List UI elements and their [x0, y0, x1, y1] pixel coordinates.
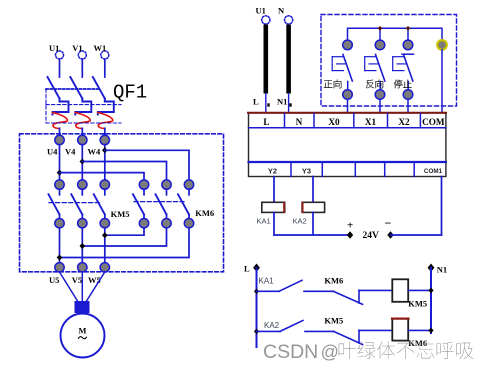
coil KM6 — [392, 319, 409, 341]
svg-text:W4: W4 — [88, 146, 102, 156]
wire W4 down to KM5 contact 3 — [104, 145, 106, 180]
terminal U4 — [47, 135, 64, 156]
KA2 NO contact blade — [280, 320, 303, 331]
svg-text:M: M — [79, 326, 87, 335]
wire QF1 pole 2 to V4 — [81, 128, 83, 135]
svg-text:N1: N1 — [437, 264, 447, 274]
terminal W5 — [88, 263, 110, 285]
wire Y3 to relay KA2 — [312, 177, 314, 203]
rung 2: node on L rail — [254, 329, 259, 335]
terminal V1 (supply phase) — [72, 43, 86, 59]
PLC output terminal labels — [268, 167, 443, 176]
rung 1 wire to coil KM5 — [359, 289, 392, 291]
QF1 trip linkage (dotted) — [46, 88, 100, 90]
thick conductor N to N1 — [286, 25, 291, 94]
PLC output row separators — [291, 162, 414, 177]
node on W5 wire — [102, 232, 108, 238]
wire KM6 contact 1 to W5 wire — [105, 228, 144, 235]
svg-text:QF1: QF1 — [113, 82, 147, 104]
svg-text:X1: X1 — [365, 117, 377, 127]
wire V4 down to KM5 contact 2 — [81, 145, 83, 180]
node on V5 wire — [80, 243, 86, 249]
wire COM terminal to PLC COM — [441, 50, 443, 113]
svg-text:W5: W5 — [88, 275, 101, 285]
QF1 enclosure (dashed) — [46, 89, 121, 123]
push button box (dashed) — [321, 15, 457, 107]
terminal V5 — [72, 263, 87, 285]
contactor KM6 contact 3 — [178, 180, 194, 228]
svg-text:KA1: KA1 — [259, 277, 275, 286]
contactor KM5 contact 1 — [49, 180, 65, 228]
common bus wire of buttons — [348, 28, 443, 40]
thick conductor U1 to L — [264, 25, 269, 94]
contactor KM5 contact 2 — [71, 180, 87, 228]
svg-text:L: L — [244, 264, 250, 274]
rung 2 wire to N1 — [408, 329, 431, 331]
terminal U5 — [49, 263, 64, 285]
bus stub to SB2 — [379, 28, 381, 40]
wire SB1 to X0 — [347, 99, 349, 113]
wire KM5 contact 2 to V5 — [81, 228, 83, 263]
wire SB2 to X1 — [379, 99, 381, 113]
svg-text:KA1: KA1 — [257, 217, 271, 226]
QF1 pole 1 thermal element (red) — [53, 113, 68, 129]
PLC top edge (dark red) — [248, 112, 446, 114]
svg-text:U4: U4 — [47, 146, 58, 156]
terminal W1 (supply phase) — [94, 43, 109, 59]
svg-text:CSDN: CSDN — [263, 341, 318, 363]
svg-text:V1: V1 — [72, 43, 82, 53]
node on bus at SB3 — [406, 26, 411, 31]
svg-text:KA2: KA2 — [293, 217, 307, 226]
motor terminal box (filled square) — [75, 301, 90, 313]
wire U5 to motor — [60, 272, 78, 301]
wire to PLC terminal N — [288, 94, 290, 114]
push button SB1 (forward) — [332, 40, 352, 99]
contactor network enclosure (dashed box) — [20, 134, 224, 272]
QF1 pole 3 release element — [98, 99, 114, 115]
wire KM5 contact 1 to U5 — [59, 228, 61, 263]
svg-text:−: − — [385, 216, 392, 230]
svg-text:W1: W1 — [94, 43, 107, 53]
svg-text:L: L — [253, 96, 259, 106]
branch wire U4 to KM6 contact 1 — [60, 173, 145, 180]
svg-text:COM1: COM1 — [424, 168, 443, 175]
rung 2 wire middle — [305, 330, 334, 332]
ladder rail L — [244, 264, 260, 348]
KM6 NC contact blade — [334, 290, 363, 304]
relay coil KA1 — [262, 202, 285, 212]
svg-text:KM5: KM5 — [111, 209, 130, 219]
wire KM6 contact 2 to V5 wire — [82, 228, 166, 246]
svg-text:Y3: Y3 — [302, 167, 311, 176]
contactor KM6 contact 1 — [133, 180, 149, 228]
KM6 mechanical linkage (dashed) — [134, 201, 184, 203]
svg-text:U5: U5 — [49, 275, 59, 285]
24V plus terminal — [347, 220, 353, 239]
label button SB1 (Chinese) — [324, 80, 341, 89]
rung 1 wire to N1 — [408, 289, 431, 291]
wire SB3 to X2 — [407, 99, 409, 113]
wire KA2 to 24V rail — [312, 212, 314, 235]
svg-text:24V: 24V — [363, 231, 380, 241]
wire QF1 pole 1 to U4 — [59, 128, 61, 135]
circuit breaker QF1 pole 2 blade — [70, 77, 82, 99]
QF1 pole 2 thermal element (red) — [75, 113, 90, 129]
svg-text:N1: N1 — [277, 96, 287, 106]
rung 2 wire to coil KM6 — [359, 329, 392, 331]
svg-text:V4: V4 — [65, 146, 76, 156]
label button SB3 (Chinese) — [394, 80, 412, 89]
svg-text:U1: U1 — [49, 43, 59, 53]
circuit breaker QF1 pole 1 blade — [48, 77, 60, 99]
terminal U1 (supply phase) — [49, 43, 64, 59]
rung 2 wire from L — [257, 330, 281, 332]
branch wire V4 to KM6 contact 2 — [82, 162, 166, 181]
svg-text:KM5: KM5 — [408, 299, 427, 309]
bus stub to SB3 — [407, 28, 409, 40]
COM terminal (yellow) — [437, 40, 447, 50]
svg-text:Y2: Y2 — [268, 167, 277, 176]
svg-text:N: N — [278, 5, 285, 15]
node on U5 wire — [57, 255, 63, 261]
wire KM6 contact 3 to U5 wire — [60, 228, 190, 258]
label button SB2 (Chinese) — [366, 80, 383, 89]
wire W5 to motor — [87, 272, 105, 301]
wire U4 down to KM5 contact 1 — [59, 145, 61, 180]
push button SB2 (reverse) — [365, 40, 385, 99]
wire QF1 pole 3 to W4 — [104, 128, 106, 135]
wire V5 to motor — [81, 272, 83, 301]
wire W1 to QF1 — [104, 59, 106, 77]
rung 2: node on N1 rail — [428, 328, 433, 334]
svg-text:COM: COM — [422, 117, 445, 127]
relay coil KA2 — [302, 202, 325, 212]
PLC input row separators — [285, 114, 421, 128]
wire KM5 contact 3 to W5 — [104, 228, 106, 263]
wire to PLC terminal L — [265, 94, 267, 114]
node on bus at SB2 — [378, 26, 383, 31]
terminal V4 — [65, 135, 87, 156]
svg-text:@: @ — [321, 342, 339, 362]
terminal W4 — [88, 135, 110, 156]
coil KM5 — [392, 279, 408, 302]
svg-text:X0: X0 — [328, 117, 340, 127]
wire U1 to QF1 — [59, 59, 61, 77]
QF1 pole 1 release element — [53, 99, 69, 115]
svg-text:U1: U1 — [256, 5, 266, 15]
24V minus terminal — [385, 216, 394, 239]
terminal U1 (control supply) — [256, 5, 270, 24]
24V rail right segment — [391, 234, 442, 236]
rung 1: node on N1 rail — [428, 288, 433, 294]
svg-text:KM5: KM5 — [324, 316, 343, 326]
motor M circle — [61, 314, 105, 358]
QF1 pole 2 release element — [75, 99, 91, 115]
tick on N1 wire — [289, 103, 291, 106]
svg-text:L: L — [263, 117, 269, 127]
svg-text:KM6: KM6 — [324, 276, 343, 286]
node on U4 wire — [57, 170, 63, 176]
24V rail left segment — [274, 234, 350, 236]
watermark CSDN — [263, 341, 473, 363]
svg-text:V5: V5 — [72, 275, 82, 285]
rung 1 wire from L — [257, 290, 280, 292]
contactor KM5 contact 3 — [94, 180, 110, 228]
KM5 mechanical linkage (dashed) — [49, 202, 100, 204]
svg-text:N: N — [296, 117, 303, 127]
rung 1 wire middle — [304, 290, 334, 292]
KM5 NC contact blade — [334, 330, 363, 344]
wire COM1 down to rail — [441, 177, 443, 236]
PLC output row top line — [249, 161, 446, 163]
terminal N (control supply) — [278, 5, 293, 24]
node on V4 wire — [80, 159, 86, 165]
svg-text:X2: X2 — [398, 117, 410, 127]
wire Y2 to relay KA1 — [273, 177, 275, 203]
PLC input row bottom line — [249, 127, 446, 129]
QF1 pole 3 thermal element (red) — [98, 113, 113, 129]
PLC terminal block body — [249, 113, 446, 177]
rung 1: node on L rail — [254, 289, 259, 295]
ladder rail N1 — [428, 264, 448, 334]
push button SB3 (stop, NC) — [393, 40, 414, 99]
svg-text:+: + — [347, 220, 353, 232]
PLC input terminal labels — [263, 117, 444, 127]
branch wire W4 to KM6 contact 3 — [105, 150, 189, 180]
wire KA1 to 24V rail — [273, 212, 275, 235]
tick on L wire — [267, 103, 269, 106]
KA1 NO contact blade — [279, 280, 302, 291]
contactor KM6 contact 2 — [156, 180, 172, 228]
svg-text:KA2: KA2 — [264, 321, 280, 330]
wire V1 to QF1 — [81, 59, 83, 77]
circuit breaker QF1 pole 3 blade — [93, 77, 105, 99]
node on W4 wire — [102, 147, 108, 153]
svg-text:KM6: KM6 — [195, 208, 214, 218]
motor label M~ — [78, 326, 86, 338]
